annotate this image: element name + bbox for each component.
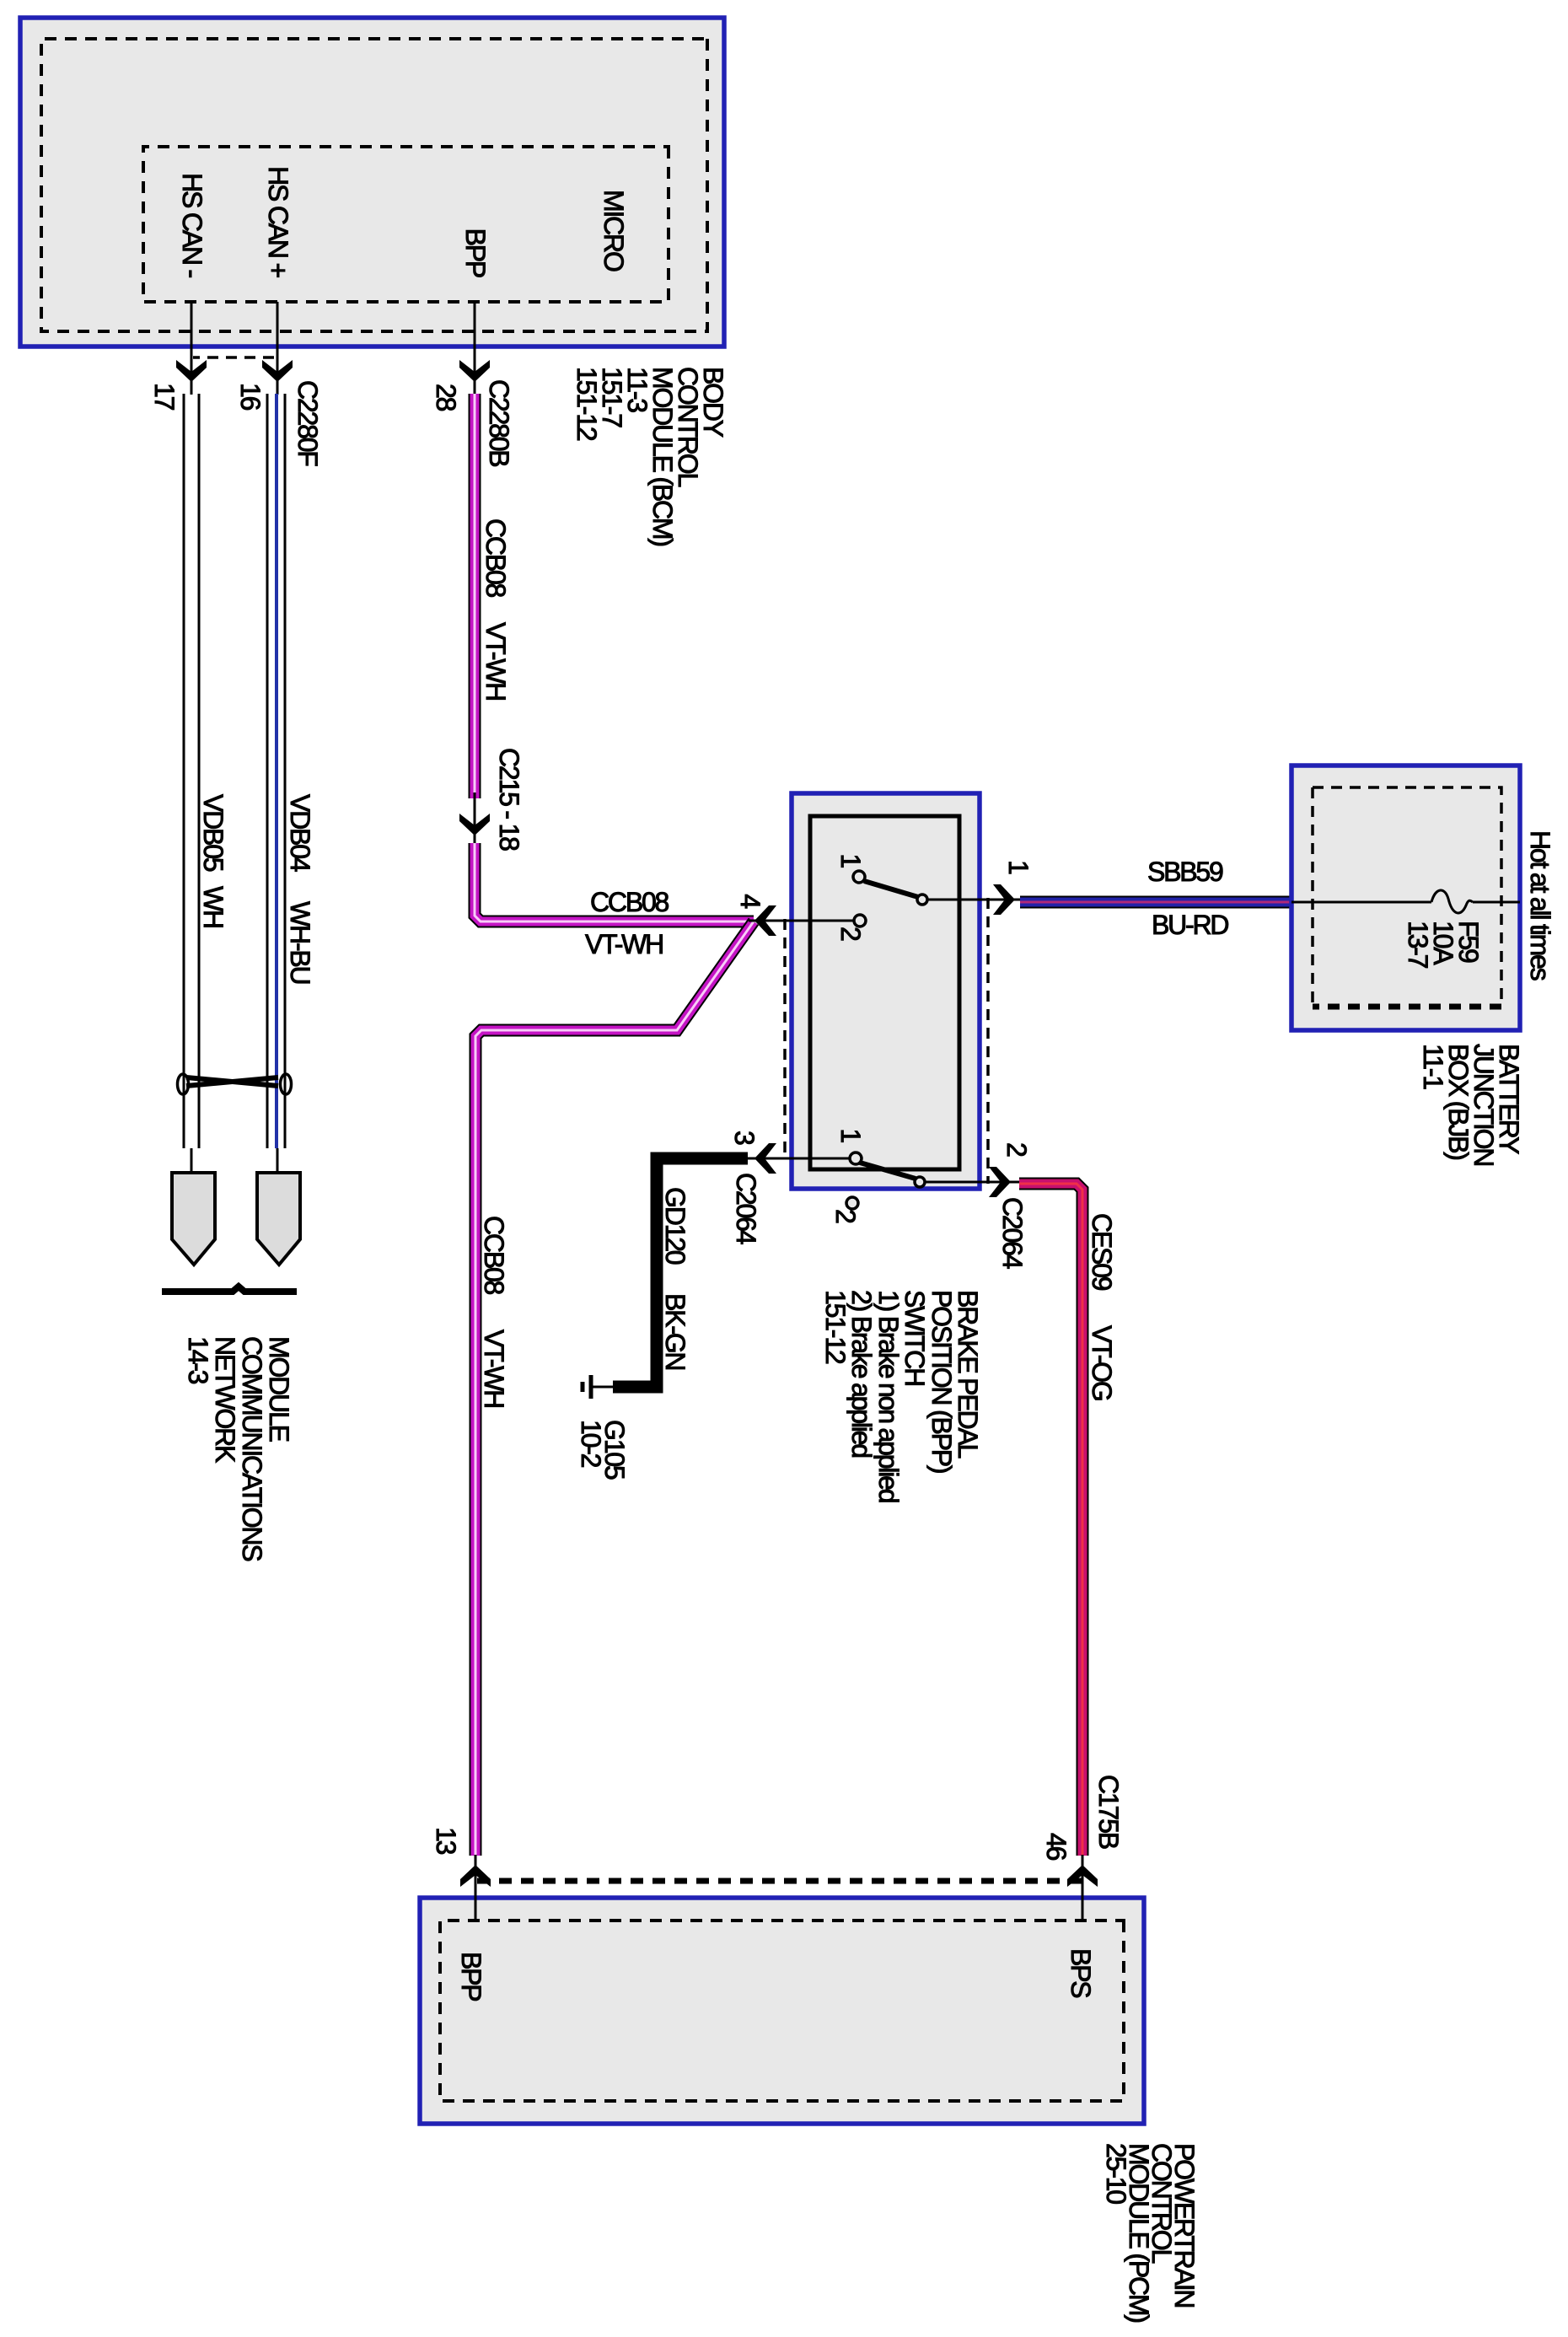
wire CCB08 VT-WH continues to BPP switch pin 4: [475, 843, 754, 921]
switch 1 contact 1 circle: [853, 871, 865, 883]
fuse F59 element: [1431, 890, 1473, 913]
svg-text:CES09: CES09: [1087, 1213, 1117, 1291]
svg-text:C2280F: C2280F: [293, 380, 323, 466]
pin 17 lead wire: [191, 302, 193, 395]
svg-text:3: 3: [729, 1131, 760, 1145]
pin 13 lead into PCM: [475, 1855, 477, 1922]
pin 46 lead into PCM: [1082, 1855, 1084, 1922]
svg-text:28: 28: [431, 384, 461, 411]
svg-text:BK-GN: BK-GN: [660, 1293, 690, 1369]
connector C2064 dashed boundary (pin 4/3 side): [783, 919, 787, 1160]
svg-text:1: 1: [1003, 860, 1034, 874]
svg-text:C2064: C2064: [997, 1197, 1028, 1269]
switch 1 pivot lead to pin 1: [926, 899, 1022, 901]
svg-text:VDB04: VDB04: [285, 794, 315, 872]
svg-text:17: 17: [149, 383, 180, 411]
svg-text:WH-BU: WH-BU: [285, 901, 315, 984]
svg-text:13-7: 13-7: [1403, 921, 1433, 969]
svg-text:46: 46: [1041, 1833, 1071, 1861]
svg-text:CCB08: CCB08: [479, 1216, 509, 1295]
svg-text:2: 2: [1001, 1142, 1032, 1157]
svg-text:CCB08: CCB08: [590, 887, 669, 917]
svg-text:14-3: 14-3: [183, 1336, 213, 1384]
BCM outer dashed boundary: [41, 39, 707, 331]
PCM inner dashed boundary: [440, 1921, 1124, 2101]
svg-text:HS CAN +: HS CAN +: [263, 166, 293, 277]
connector C2280F dashed link line: [193, 356, 274, 359]
switch 2 pivot lead to pin 2: [924, 1181, 1020, 1184]
svg-text:BPP: BPP: [456, 1952, 486, 2001]
svg-text:VT-WH: VT-WH: [479, 1330, 509, 1407]
switch 2 pivot circle: [915, 1177, 925, 1187]
network connector symbol (HS CAN -): [172, 1173, 215, 1265]
switch 2 blade: [860, 1163, 916, 1179]
module box: POWERTRAIN CONTROL MODULE (PCM): [420, 1898, 1144, 2124]
MICRO block dashed box inside BCM: [143, 147, 669, 302]
pin 3 entry arrow (points at GD120 wire): [754, 1143, 776, 1174]
svg-text:11-1: 11-1: [1418, 1044, 1448, 1089]
component box: BRAKE PEDAL POSITION (BPP) SWITCH: [792, 793, 980, 1189]
ground lead: [593, 1386, 613, 1389]
pin 16 connector arrow: [262, 360, 293, 382]
pin 17 connector arrow: [176, 360, 207, 382]
svg-text:VDB05: VDB05: [198, 794, 228, 872]
svg-text:C215 - 18: C215 - 18: [494, 748, 524, 851]
wire CES09 VT-OG to PCM pin 46: [1019, 1184, 1082, 1856]
switch 2 contact 1 circle: [850, 1152, 862, 1164]
svg-text:2: 2: [835, 927, 866, 941]
pin 1 exit arrow (points at SBB59 wire): [993, 884, 1015, 915]
switch 1 contact 2 circle: [854, 915, 866, 927]
svg-text:MICRO: MICRO: [599, 190, 629, 271]
svg-text:1) Brake non applied: 1) Brake non applied: [873, 1290, 904, 1502]
svg-text:C2280B: C2280B: [484, 379, 514, 466]
fuse F59 lead lower: [1291, 901, 1431, 904]
svg-text:1: 1: [835, 853, 866, 868]
svg-text:16: 16: [235, 383, 266, 411]
wire CCB08 VT-WH segment from BCM pin 28: [469, 394, 481, 798]
pin 16 lead wire: [277, 302, 279, 395]
wire GD120 BK-GN ground wire: [613, 1158, 748, 1387]
svg-text:2: 2: [830, 1209, 861, 1223]
connector C175B dashed link line: [472, 1878, 1082, 1884]
svg-text:Hot at all times: Hot at all times: [1525, 830, 1555, 980]
svg-text:VT-WH: VT-WH: [481, 622, 511, 700]
svg-text:BRAKE PEDAL: BRAKE PEDAL: [953, 1290, 983, 1459]
twisted pair crossover symbol: [178, 1074, 189, 1094]
svg-text:GD120: GD120: [660, 1187, 690, 1265]
pin 4 entry arrow (points at wire): [754, 905, 776, 936]
module box: BODY CONTROL MODULE (BCM): [20, 18, 724, 347]
svg-text:HS CAN -: HS CAN -: [177, 173, 207, 277]
svg-text:NETWORK: NETWORK: [210, 1336, 240, 1463]
svg-text:BU-RD: BU-RD: [1152, 910, 1228, 940]
svg-text:1: 1: [835, 1128, 866, 1142]
BJB dashed boundary: [1313, 787, 1501, 1007]
pin 46 entry arrow: [1067, 1865, 1098, 1887]
pin 13 entry arrow: [460, 1865, 491, 1887]
BPP switch inner black outline: [810, 816, 959, 1169]
ground symbol G105: [589, 1375, 593, 1399]
svg-text:2) Brake applied: 2) Brake applied: [846, 1290, 877, 1457]
network connector symbol (HS CAN +): [257, 1173, 300, 1265]
svg-text:COMMUNICATIONS: COMMUNICATIONS: [237, 1336, 267, 1561]
single lead into network connector (HS CAN +): [277, 1148, 279, 1176]
connector C215 inline arrow: [474, 792, 476, 847]
pin 2 exit arrow (points at CES09 wire): [989, 1167, 1011, 1197]
svg-text:CCB08: CCB08: [481, 518, 511, 598]
svg-text:BPP: BPP: [460, 228, 491, 277]
twisted pair wire VDB04 WH-BU (HS CAN +): [284, 394, 287, 1148]
switch 2 contact 2 circle: [846, 1197, 858, 1209]
svg-text:C2064: C2064: [731, 1173, 761, 1244]
svg-text:10-2: 10-2: [576, 1420, 606, 1468]
svg-text:POSITION (BPP): POSITION (BPP): [926, 1290, 957, 1473]
svg-text:151-12: 151-12: [572, 367, 602, 441]
connector C2064 dashed boundary (pin 1/2 side): [986, 898, 990, 1184]
switch 1 blade: [864, 881, 918, 897]
pin 28 lead wire: [474, 302, 476, 395]
module communications network bus bar: [162, 1287, 297, 1292]
svg-text:4: 4: [735, 894, 765, 908]
wire CCB08 VT-WH diagonal branch down to PCM pin 13: [475, 921, 754, 1856]
pin 28 connector arrow: [459, 360, 490, 382]
svg-text:25-10: 25-10: [1101, 2143, 1131, 2204]
single lead into network connector (HS CAN -): [191, 1148, 193, 1176]
svg-text:BPS: BPS: [1066, 1948, 1096, 1997]
svg-text:MODULE: MODULE: [264, 1336, 294, 1442]
svg-text:SBB59: SBB59: [1147, 857, 1223, 887]
svg-text:C175B: C175B: [1093, 1775, 1124, 1849]
svg-text:13: 13: [431, 1827, 461, 1855]
wire SBB59 BU-RD to battery junction box: [1020, 896, 1292, 909]
pin 3 lead from switch 2 contact 1: [746, 1158, 851, 1160]
switch 1 pivot circle: [917, 895, 927, 905]
svg-text:WH: WH: [198, 886, 228, 927]
blue stripe of WH-BU wire: [275, 394, 278, 1148]
component box: BATTERY JUNCTION BOX (BJB): [1291, 766, 1520, 1030]
svg-text:151-12: 151-12: [820, 1290, 851, 1364]
fuse F59 lead upper: [1473, 901, 1520, 904]
BJB dashed boundary thick edge: [1313, 1004, 1501, 1010]
twisted pair wire VDB05 WH (HS CAN -): [198, 394, 201, 1148]
svg-text:VT-WH: VT-WH: [585, 929, 663, 959]
svg-text:VT-OG: VT-OG: [1087, 1325, 1117, 1400]
svg-text:SWITCH: SWITCH: [899, 1290, 930, 1385]
pin 4 lead to switch contact 2: [749, 920, 855, 922]
